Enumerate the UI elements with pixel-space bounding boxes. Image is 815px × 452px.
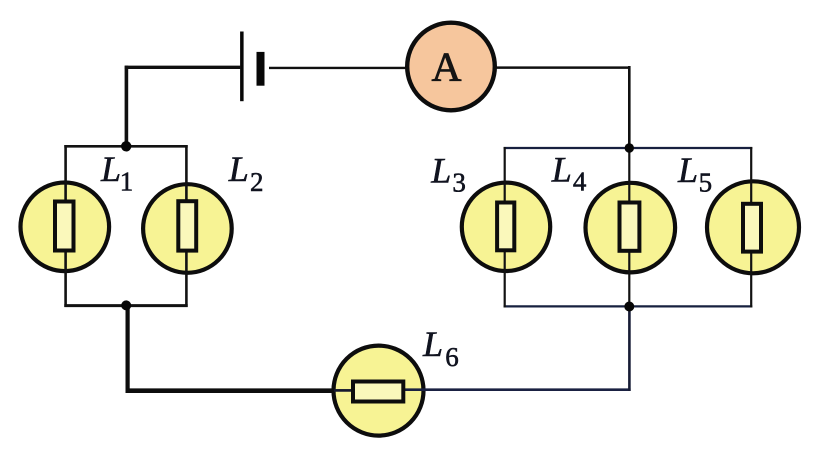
svg-text:1: 1: [120, 166, 134, 196]
svg-text:5: 5: [699, 168, 713, 198]
svg-text:L: L: [100, 149, 121, 189]
svg-text:L: L: [228, 149, 249, 189]
svg-text:L: L: [551, 150, 572, 190]
svg-text:6: 6: [445, 342, 459, 372]
svg-text:4: 4: [573, 166, 587, 196]
svg-text:2: 2: [250, 167, 264, 197]
svg-text:A: A: [432, 43, 462, 89]
svg-text:L: L: [430, 150, 451, 190]
svg-text:3: 3: [452, 167, 466, 197]
svg-text:L: L: [677, 150, 698, 190]
svg-text:L: L: [422, 324, 443, 364]
